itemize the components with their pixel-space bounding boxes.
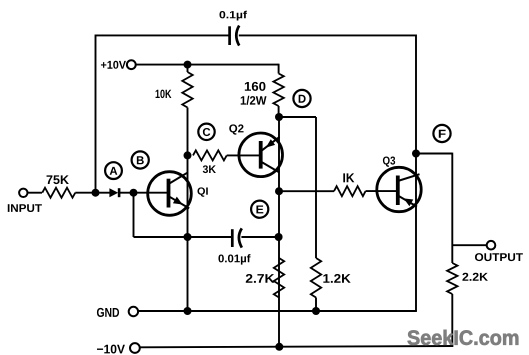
wire 10K column top lead [187, 65, 189, 72]
wire node F to output branch [416, 153, 452, 155]
node circle C [198, 124, 214, 140]
wire 75K to left column junction [75, 192, 96, 194]
wire right vertical (cap line down to Q3 collector and emitter run) [415, 35, 417, 312]
label 3K [203, 165, 216, 173]
wire output stub [452, 244, 487, 246]
node junction dot C (10K / 3K / Q1 collector) [184, 151, 192, 159]
label 1.2K [323, 274, 350, 283]
terminal GND [129, 307, 138, 316]
diode CR1 triangle [109, 188, 118, 197]
transistor Q3 emitter lead (down) [398, 196, 417, 207]
node junction F dot (Q3 collector / feedback) [412, 150, 420, 158]
wire -10V rail [140, 346, 453, 347]
wire 160 top lead [278, 64, 280, 74]
wire Q1 collector-emitter column [187, 155, 189, 311]
label Q3 [383, 156, 395, 166]
wire cap line emitter to 0.01uF [188, 236, 232, 238]
transistor Q3 base bar [396, 176, 400, 206]
capacitor C1 0.1uF label [219, 11, 247, 21]
transistor Q3 emitter arrow (PNP toward bar) [404, 198, 414, 206]
terminal -10V [130, 343, 140, 353]
wire 10K bottom to node C junction [187, 108, 189, 156]
label 10K [156, 90, 172, 98]
transistor Q1 circle [148, 172, 192, 216]
node circle D [293, 90, 310, 107]
transistor Q2 base bar [259, 141, 263, 169]
node junction dot emitter column / GND [184, 307, 192, 315]
label +10V [101, 61, 126, 69]
label INPUT [8, 204, 42, 212]
node junction dot Q1 emitter / cap line [184, 233, 192, 241]
node junction dot E / cap [275, 233, 283, 241]
wire node B drop vertical [133, 193, 135, 237]
transistor Q3 circle [377, 167, 421, 211]
wire GND rail [138, 310, 417, 312]
transistor Q1 collector lead [169, 172, 189, 184]
resistor R4 3K zigzag [193, 150, 227, 160]
wire node D to 1.2K column [279, 116, 316, 118]
capacitor C2 0.01uF [232, 228, 242, 247]
label OUTPUT [475, 253, 523, 261]
wire 3K to Q2 base [227, 154, 260, 156]
wire Q2 emitter up to node D [278, 117, 280, 139]
node junction dot +10V / 10K [184, 61, 192, 69]
wire top rail right segment [239, 34, 416, 36]
resistor R8 1K zigzag [334, 186, 366, 196]
resistor R3 160 zigzag [273, 74, 283, 107]
wire +10V rail [136, 64, 279, 66]
wire input lead [27, 192, 42, 194]
node junction dot Q2 collector / 1K [275, 187, 283, 195]
label GND [97, 308, 119, 317]
wire top rail left segment (feedback cap line) [96, 34, 230, 36]
label 2.2K [462, 273, 487, 281]
label 160 [245, 82, 266, 91]
node junction dot 1.2K / GND [312, 307, 320, 315]
wire left vertical (feedback cap to input node) [95, 35, 97, 193]
transistor Q1 emitter lead [169, 196, 189, 208]
wire 160 bottom lead to node D [278, 106, 280, 117]
label 2.7K [246, 274, 275, 283]
wire output branch vertical upper [451, 153, 453, 263]
transistor Q1 emitter arrow (NPN) [173, 197, 183, 205]
diode CR1 cathode bar [118, 188, 121, 197]
wire 1K line Q2 collector to resistor [279, 190, 334, 192]
label 75K [47, 175, 69, 184]
node circle A [105, 162, 122, 179]
terminal INPUT [19, 189, 27, 197]
node junction dot B (Q1 base) [130, 189, 138, 197]
node circle B [132, 151, 149, 168]
node junction dot 2.7K / -10V [275, 343, 283, 351]
transistor Q2 emitter arrow (PNP toward bar) [266, 139, 275, 147]
transistor Q2 collector lead (down) [261, 162, 280, 173]
wire node B drop horizontal to emitter node [134, 236, 188, 238]
node circle E [251, 201, 268, 218]
label 1K [343, 173, 354, 182]
wire 1K to Q3 base [366, 190, 397, 192]
wire input node to diode [96, 192, 111, 194]
terminal +10V [127, 60, 136, 69]
resistor R2 10K zigzag [182, 72, 192, 108]
transistor Q2 circle [239, 133, 283, 177]
label Q2 [229, 124, 243, 134]
watermark SeekIC.com [408, 330, 519, 345]
wire diode to node B [119, 192, 134, 194]
wire Q2 collector column (node E) down [278, 137, 280, 347]
node junction dot input / feedback [92, 189, 100, 197]
transistor Q3 collector lead (up) [398, 174, 420, 181]
wire 1.2K bottom lead [315, 298, 317, 312]
resistor R5 2.7K zigzag [274, 258, 284, 298]
label -10V [97, 345, 125, 354]
wire 0.01uF to node E column [241, 236, 278, 238]
node junction dot D (160 / Q2 emitter / 1.2K branch) [275, 113, 283, 121]
wire output branch vertical lower [451, 294, 453, 347]
transistor Q2 emitter lead (up) [261, 137, 280, 151]
wire 1.2K column vertical [315, 117, 317, 258]
label Q1 [197, 187, 207, 196]
resistor R6 1.2K zigzag [311, 258, 321, 298]
capacitor C2 0.01uF label [218, 254, 250, 264]
resistor R1 75K zigzag [42, 188, 75, 198]
resistor R7 2.2K zigzag [447, 263, 457, 294]
node circle F [433, 125, 450, 142]
capacitor C1 0.1uF [230, 26, 240, 46]
wire Q1 base lead [134, 192, 168, 194]
transistor Q1 base bar [167, 179, 171, 208]
label 1/2W [241, 96, 267, 105]
terminal OUTPUT [487, 241, 496, 250]
